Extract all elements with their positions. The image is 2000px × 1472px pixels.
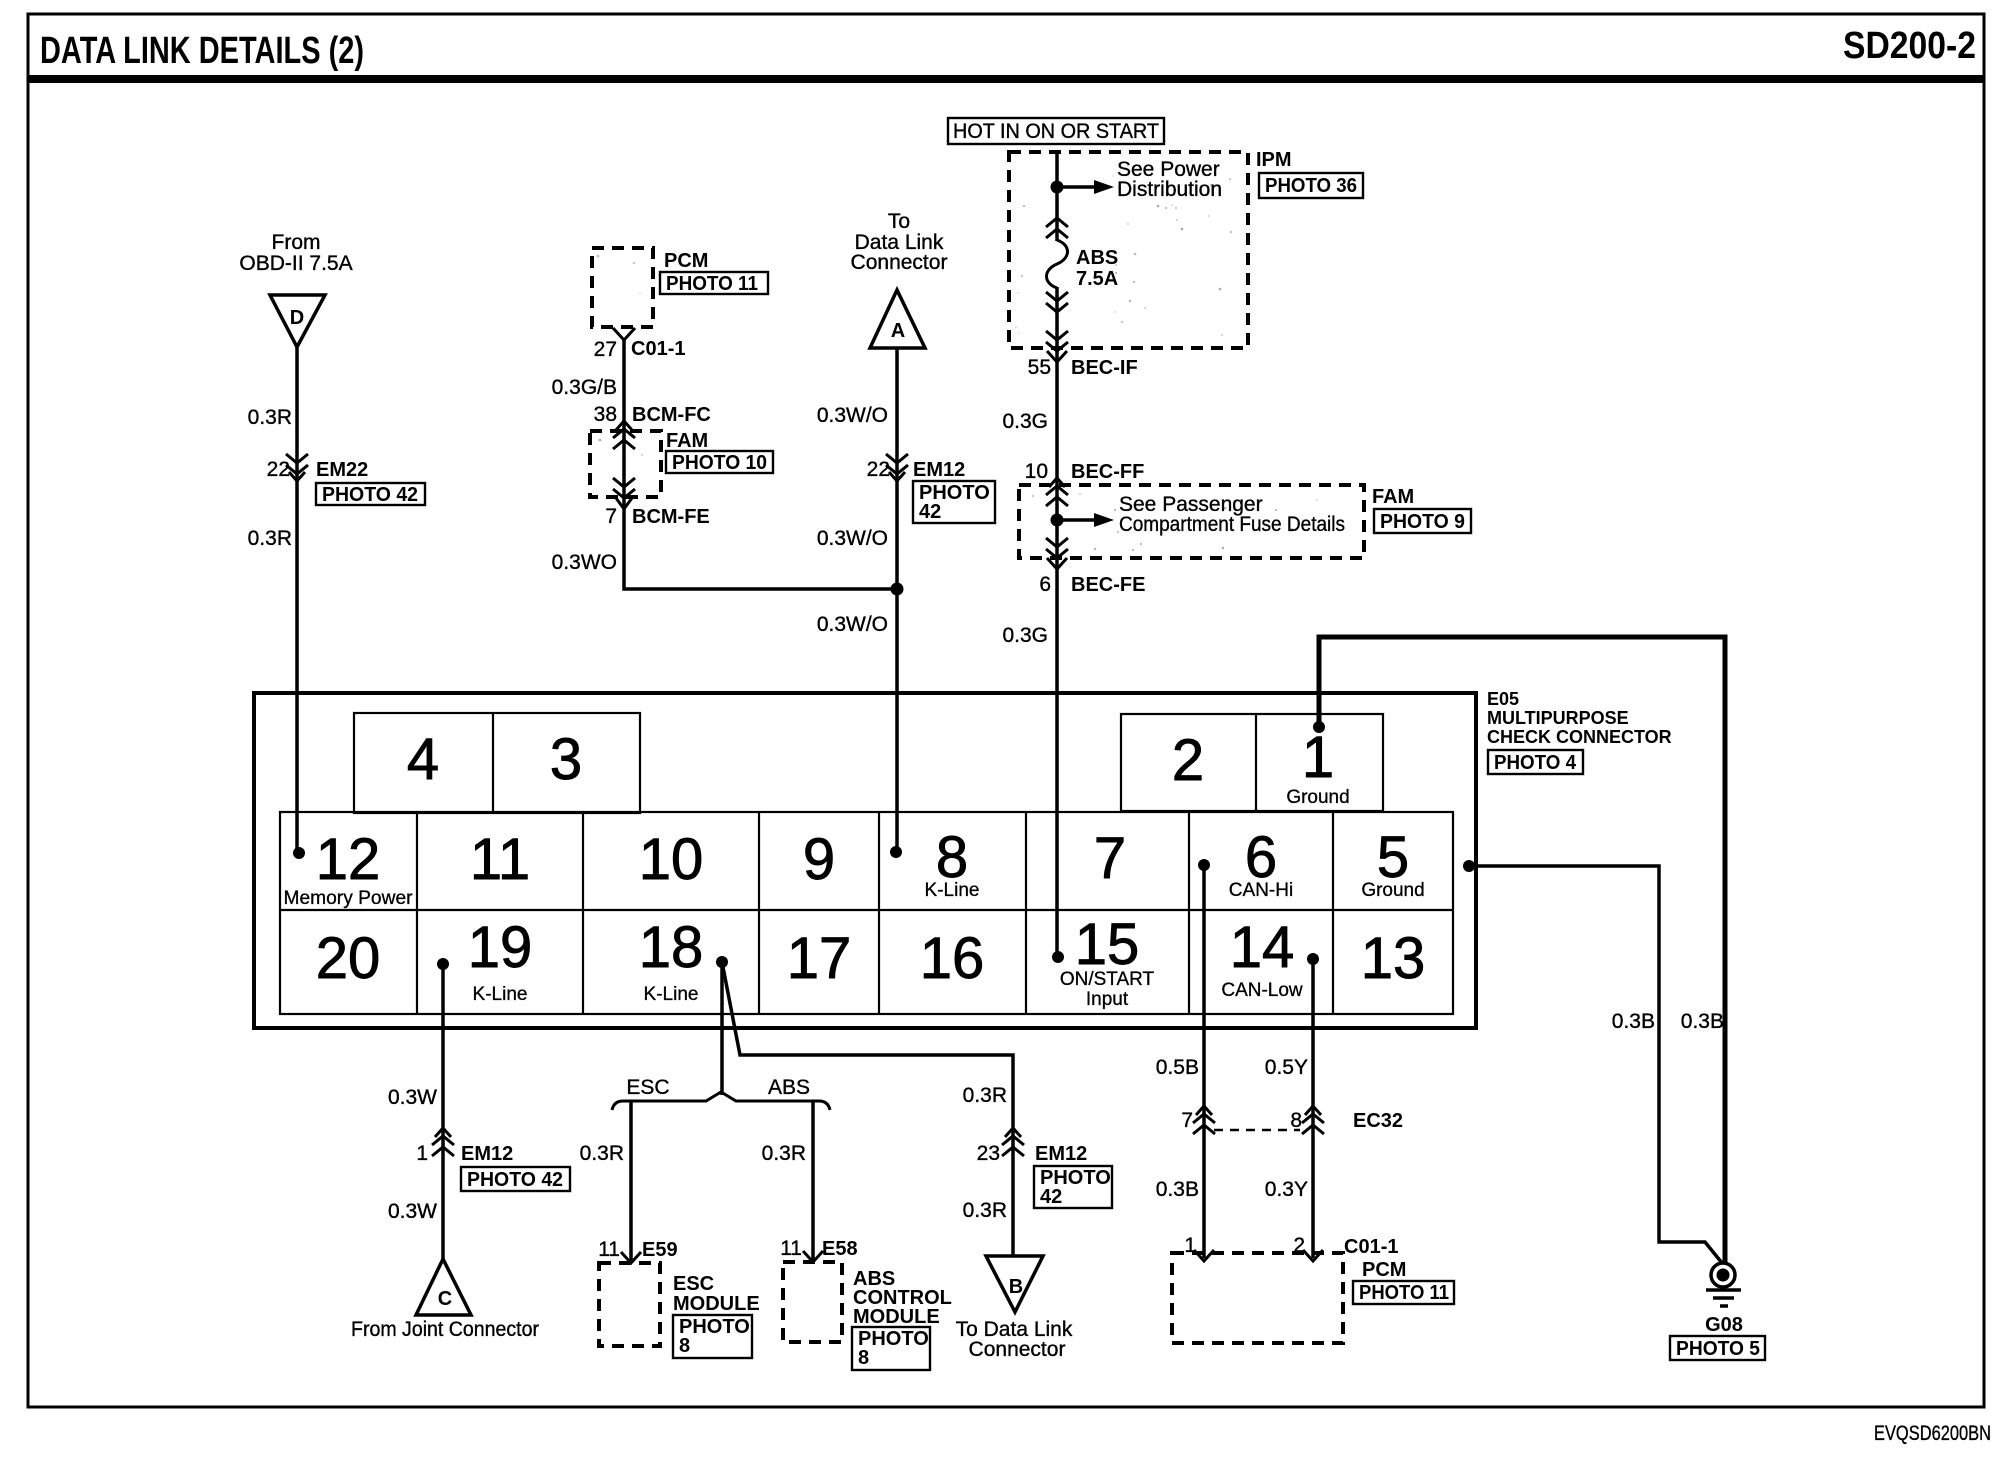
ground G08 symbol bbox=[1706, 1263, 1741, 1306]
ESC MODULE label bbox=[673, 1273, 760, 1315]
connector EM12 pin 1 symbol bbox=[432, 1128, 454, 1156]
svg-text:BCM-FE: BCM-FE bbox=[632, 506, 710, 528]
pin 12 dot bbox=[293, 847, 305, 859]
fuse ABS 7.5A entry chevrons bbox=[1046, 218, 1068, 238]
svg-text:PHOTO 9: PHOTO 9 bbox=[1380, 511, 1465, 533]
svg-text:42: 42 bbox=[919, 501, 941, 523]
connector BEC-FF pin 10 symbol bbox=[1046, 478, 1068, 506]
svg-text:Distribution: Distribution bbox=[1117, 178, 1222, 201]
module FAM dashed box (passenger fuse) bbox=[1019, 485, 1364, 558]
svg-text:0.3W/O: 0.3W/O bbox=[817, 527, 888, 550]
svg-text:EM12: EM12 bbox=[1035, 1143, 1087, 1165]
PHOTO 42 box (EM12 C) bbox=[461, 1167, 570, 1191]
wire pin 14 to C01-1 pin 2 bbox=[1311, 959, 1315, 1258]
wire pin 6 to C01-1 pin 1 bbox=[1202, 865, 1206, 1258]
svg-text:C01-1: C01-1 bbox=[631, 338, 685, 360]
svg-text:OBD-II 7.5A: OBD-II 7.5A bbox=[239, 252, 352, 275]
svg-text:ABS: ABS bbox=[768, 1076, 810, 1099]
svg-text:K-Line: K-Line bbox=[644, 984, 699, 1005]
svg-text:PHOTO 36: PHOTO 36 bbox=[1265, 175, 1357, 197]
svg-text:0.3W: 0.3W bbox=[388, 1200, 437, 1223]
svg-text:Compartment Fuse Details: Compartment Fuse Details bbox=[1119, 513, 1345, 536]
svg-text:1: 1 bbox=[416, 1142, 428, 1165]
svg-text:8: 8 bbox=[679, 1335, 690, 1357]
ESC/ABS split bracket bbox=[612, 1092, 830, 1110]
PHOTO 42 box (EM12 A) bbox=[913, 481, 995, 523]
svg-text:C01-1: C01-1 bbox=[1344, 1236, 1398, 1258]
wire pin 19 to node C (0.3W) bbox=[441, 964, 445, 1259]
svg-text:18: 18 bbox=[639, 915, 704, 980]
wire BEC vertical upper bbox=[1055, 152, 1059, 957]
PHOTO 8 box (ABS) bbox=[852, 1327, 930, 1370]
svg-text:BEC-IF: BEC-IF bbox=[1071, 357, 1138, 379]
svg-text:HOT IN ON OR START: HOT IN ON OR START bbox=[953, 120, 1159, 143]
svg-text:ESC: ESC bbox=[673, 1273, 714, 1295]
fuse ABS 7.5A s-curve bbox=[1047, 240, 1068, 288]
pin 8 dot bbox=[890, 846, 902, 858]
svg-text:PHOTO 4: PHOTO 4 bbox=[1494, 752, 1577, 774]
svg-text:0.3B: 0.3B bbox=[1681, 1010, 1724, 1033]
svg-text:FAM: FAM bbox=[1372, 486, 1414, 508]
module FAM dashed box (BCM) bbox=[590, 431, 661, 497]
node D label: From OBD-II 7.5A bbox=[239, 231, 352, 275]
svg-text:1: 1 bbox=[1302, 725, 1334, 790]
svg-text:0.3Y: 0.3Y bbox=[1265, 1178, 1308, 1201]
svg-text:7: 7 bbox=[605, 505, 617, 528]
svg-text:55: 55 bbox=[1028, 356, 1051, 379]
pin 6 dot bbox=[1198, 859, 1210, 871]
module PCM dashed box (bottom) bbox=[1172, 1253, 1343, 1343]
node A triangle bbox=[870, 290, 925, 348]
svg-text:7.5A: 7.5A bbox=[1076, 268, 1118, 290]
junction dot FAM bbox=[1051, 514, 1064, 527]
connector E58 pin 11 Y symbol bbox=[803, 1251, 823, 1262]
svg-text:CHECK CONNECTOR: CHECK CONNECTOR bbox=[1487, 727, 1672, 747]
svg-text:0.3R: 0.3R bbox=[762, 1142, 806, 1165]
connector EC32 pin 7 symbol bbox=[1193, 1106, 1215, 1134]
svg-text:ESC: ESC bbox=[626, 1076, 669, 1099]
svg-text:B: B bbox=[1009, 1276, 1023, 1298]
module IPM dashed box bbox=[1009, 152, 1248, 348]
svg-text:7: 7 bbox=[1181, 1109, 1193, 1132]
connector EM22 pin 22 symbol bbox=[286, 454, 308, 481]
svg-text:0.3G: 0.3G bbox=[1002, 624, 1048, 647]
svg-text:3: 3 bbox=[550, 727, 582, 792]
svg-text:MODULE: MODULE bbox=[853, 1306, 940, 1328]
svg-text:38: 38 bbox=[594, 403, 617, 426]
svg-text:K-Line: K-Line bbox=[473, 984, 528, 1005]
wire ESC branch (0.3R) bbox=[629, 1101, 633, 1263]
svg-text:4: 4 bbox=[407, 727, 439, 792]
wire D to pin 12 (0.3R) bbox=[295, 347, 299, 853]
E05 upper cells 2 and 1 box bbox=[1121, 714, 1383, 811]
node A label: To Data Link Connector bbox=[851, 210, 948, 274]
connector E05 outer box bbox=[254, 693, 1476, 1028]
svg-text:20: 20 bbox=[316, 926, 381, 991]
arrow to See Passenger Compartment Fuse Details bbox=[1057, 513, 1114, 527]
svg-text:Memory Power: Memory Power bbox=[284, 888, 414, 909]
node B label To Data Link Connector bbox=[956, 1318, 1073, 1361]
svg-text:0.5B: 0.5B bbox=[1156, 1056, 1199, 1079]
connector EM12 pin 22 symbol bbox=[886, 454, 908, 481]
svg-text:0.3R: 0.3R bbox=[248, 406, 292, 429]
svg-text:EM12: EM12 bbox=[461, 1143, 513, 1165]
svg-text:ABS: ABS bbox=[1076, 247, 1118, 269]
svg-text:17: 17 bbox=[787, 926, 852, 991]
svg-text:11: 11 bbox=[598, 1238, 620, 1261]
PHOTO 4 box (E05) bbox=[1488, 750, 1583, 774]
PHOTO 11 box (PCM bottom) bbox=[1353, 1281, 1454, 1304]
svg-text:0.3G: 0.3G bbox=[1002, 410, 1048, 433]
connector E59 pin 11 Y symbol bbox=[621, 1252, 641, 1263]
connector BCM-FC pin 38 symbol bbox=[613, 421, 635, 449]
wire PCM to BCM junction (0.3G/B) bbox=[624, 340, 897, 589]
svg-text:27: 27 bbox=[594, 338, 617, 361]
pin 1 dot bbox=[1313, 721, 1325, 733]
svg-text:From: From bbox=[272, 231, 321, 254]
HOT IN ON OR START box bbox=[948, 118, 1164, 144]
svg-text:7: 7 bbox=[1094, 826, 1126, 891]
PHOTO 5 box (G08) bbox=[1670, 1336, 1765, 1360]
svg-text:DATA LINK DETAILS (2): DATA LINK DETAILS (2) bbox=[40, 30, 364, 72]
svg-text:0.3R: 0.3R bbox=[580, 1142, 624, 1165]
svg-text:E58: E58 bbox=[822, 1238, 858, 1260]
svg-text:0.3R: 0.3R bbox=[963, 1199, 1007, 1222]
svg-text:0.3R: 0.3R bbox=[248, 527, 292, 550]
svg-text:To: To bbox=[888, 210, 910, 233]
pin 14 dot bbox=[1307, 953, 1319, 965]
svg-text:0.3B: 0.3B bbox=[1156, 1178, 1199, 1201]
svg-text:8: 8 bbox=[858, 1347, 869, 1369]
svg-text:11: 11 bbox=[780, 1237, 802, 1260]
svg-text:SD200-2: SD200-2 bbox=[1843, 25, 1976, 67]
svg-text:EM12: EM12 bbox=[913, 459, 965, 481]
svg-text:PCM: PCM bbox=[1362, 1259, 1406, 1281]
PHOTO 9 box (FAM) bbox=[1374, 509, 1471, 533]
junction dot IPM bbox=[1051, 181, 1064, 194]
svg-text:CAN-Hi: CAN-Hi bbox=[1229, 880, 1293, 901]
svg-text:11: 11 bbox=[470, 827, 530, 892]
svg-text:PHOTO 11: PHOTO 11 bbox=[1359, 1282, 1449, 1304]
svg-text:9: 9 bbox=[803, 827, 835, 892]
svg-text:CAN-Low: CAN-Low bbox=[1221, 980, 1303, 1001]
E05 label block bbox=[1487, 689, 1672, 747]
svg-text:22: 22 bbox=[267, 458, 290, 481]
fuse exit chevrons bbox=[1046, 292, 1068, 312]
svg-text:19: 19 bbox=[468, 915, 533, 980]
connector EC32 pin 8 symbol bbox=[1302, 1106, 1324, 1134]
module PCM (top) dashed box bbox=[592, 248, 653, 327]
svg-text:2: 2 bbox=[1172, 728, 1204, 793]
svg-text:0.5Y: 0.5Y bbox=[1265, 1056, 1308, 1079]
node C triangle bbox=[416, 1259, 471, 1315]
ABS CONTROL MODULE label bbox=[853, 1268, 952, 1328]
svg-text:K-Line: K-Line bbox=[925, 880, 980, 901]
PHOTO 42 box (EM12 B) bbox=[1034, 1166, 1112, 1208]
svg-text:12: 12 bbox=[316, 827, 381, 892]
pin 5 dot bbox=[1463, 860, 1475, 872]
svg-text:PHOTO 11: PHOTO 11 bbox=[666, 273, 758, 295]
svg-text:D: D bbox=[290, 307, 304, 329]
svg-text:E59: E59 bbox=[642, 1239, 678, 1261]
svg-text:IPM: IPM bbox=[1256, 149, 1292, 171]
svg-text:0.3W/O: 0.3W/O bbox=[817, 613, 888, 636]
svg-text:PHOTO 42: PHOTO 42 bbox=[322, 484, 418, 506]
node D triangle bbox=[270, 295, 325, 347]
fuse label ABS 7.5A bbox=[1076, 247, 1118, 290]
label See Passenger Compartment Fuse Details bbox=[1119, 493, 1345, 536]
module ABS CONTROL MODULE dashed box bbox=[783, 1262, 842, 1342]
EC32 dashed link bbox=[1214, 1129, 1300, 1132]
PHOTO 36 box (IPM) bbox=[1259, 173, 1363, 198]
svg-text:13: 13 bbox=[1361, 926, 1426, 991]
svg-text:15: 15 bbox=[1075, 912, 1140, 977]
svg-text:Ground: Ground bbox=[1361, 880, 1424, 901]
svg-text:ON/START: ON/START bbox=[1060, 969, 1155, 990]
svg-text:G08: G08 bbox=[1705, 1314, 1743, 1336]
svg-text:BEC-FE: BEC-FE bbox=[1071, 574, 1145, 596]
pin 15 label ON/START Input bbox=[1060, 969, 1155, 1010]
svg-text:PHOTO 10: PHOTO 10 bbox=[672, 452, 767, 474]
pin 15 dot bbox=[1052, 951, 1064, 963]
svg-text:0.3B: 0.3B bbox=[1612, 1010, 1655, 1033]
svg-text:FAM: FAM bbox=[666, 430, 708, 452]
svg-text:14: 14 bbox=[1230, 915, 1295, 980]
module ESC MODULE dashed box bbox=[599, 1263, 660, 1346]
svg-text:EM22: EM22 bbox=[316, 459, 368, 481]
pin 19 dot bbox=[437, 958, 449, 970]
svg-text:0.3R: 0.3R bbox=[963, 1084, 1007, 1107]
wire pin 5 to G08 (0.3B) bbox=[1469, 866, 1722, 1263]
svg-text:6: 6 bbox=[1039, 573, 1051, 596]
svg-text:E05: E05 bbox=[1487, 689, 1519, 709]
svg-text:22: 22 bbox=[867, 458, 890, 481]
svg-text:0.3WO: 0.3WO bbox=[552, 551, 617, 574]
svg-text:Ground: Ground bbox=[1286, 787, 1349, 808]
svg-text:MULTIPURPOSE: MULTIPURPOSE bbox=[1487, 708, 1629, 728]
svg-text:PHOTO 42: PHOTO 42 bbox=[467, 1169, 563, 1191]
wire pin 18 vertical to split bbox=[720, 962, 724, 1095]
svg-text:EC32: EC32 bbox=[1353, 1110, 1403, 1132]
wire pin 18 to node B (0.3R) bbox=[722, 962, 1013, 1256]
svg-text:A: A bbox=[891, 320, 905, 342]
node B triangle bbox=[986, 1256, 1043, 1312]
connector BCM-FE pin 7 symbol bbox=[613, 478, 635, 509]
svg-text:PCM: PCM bbox=[664, 250, 708, 272]
svg-text:23: 23 bbox=[977, 1142, 1000, 1165]
svg-text:0.3W: 0.3W bbox=[388, 1086, 437, 1109]
pin 18 dot bbox=[716, 956, 728, 968]
svg-text:From Joint Connector: From Joint Connector bbox=[351, 1318, 539, 1341]
svg-text:10: 10 bbox=[639, 827, 704, 892]
connector BEC-IF pin 55 chevrons and Y bbox=[1046, 331, 1068, 362]
wire pin 1 to G08 (thick) bbox=[1319, 637, 1725, 1263]
PHOTO 10 box (FAM) bbox=[666, 451, 773, 474]
svg-text:0.3G/B: 0.3G/B bbox=[552, 376, 617, 399]
arrow to See Power Distribution bbox=[1057, 180, 1114, 194]
svg-text:10: 10 bbox=[1025, 460, 1048, 483]
PHOTO 11 box (PCM top) bbox=[660, 272, 768, 295]
svg-text:BCM-FC: BCM-FC bbox=[632, 404, 711, 426]
wire A to pin 8 (0.3W/O) bbox=[895, 348, 899, 852]
connector C01-1 pin 1 Y symbol bbox=[1194, 1250, 1214, 1261]
svg-text:8: 8 bbox=[1290, 1109, 1302, 1132]
PHOTO 42 box (EM22) bbox=[316, 483, 425, 506]
svg-text:Input: Input bbox=[1086, 989, 1129, 1010]
svg-text:C: C bbox=[438, 1288, 452, 1310]
E05 upper cells 4 and 3 box bbox=[354, 713, 640, 813]
svg-text:PHOTO 5: PHOTO 5 bbox=[1676, 1338, 1760, 1360]
svg-text:BEC-FF: BEC-FF bbox=[1071, 461, 1144, 483]
svg-text:Connector: Connector bbox=[969, 1338, 1066, 1361]
E05 main pin band bbox=[280, 812, 1453, 1014]
connector BEC-FE pin 6 chevrons and Y bbox=[1046, 538, 1068, 569]
connector C01-1 pin 27 Y symbol bbox=[613, 328, 635, 340]
connector C01-1 pin 2 Y symbol bbox=[1303, 1250, 1323, 1261]
wire ABS branch (0.3R) bbox=[811, 1101, 815, 1262]
svg-text:EVQSD6200BN: EVQSD6200BN bbox=[1874, 1422, 1991, 1445]
PHOTO 8 box (ESC) bbox=[673, 1315, 752, 1358]
svg-text:0.3W/O: 0.3W/O bbox=[817, 404, 888, 427]
svg-text:MODULE: MODULE bbox=[673, 1293, 760, 1315]
svg-text:42: 42 bbox=[1040, 1186, 1062, 1208]
svg-text:16: 16 bbox=[920, 926, 985, 991]
junction dot BCM/A wires bbox=[891, 583, 904, 596]
connector EM12 pin 23 symbol bbox=[1002, 1128, 1024, 1156]
label See Power Distribution bbox=[1117, 158, 1222, 201]
svg-text:Connector: Connector bbox=[851, 251, 948, 274]
